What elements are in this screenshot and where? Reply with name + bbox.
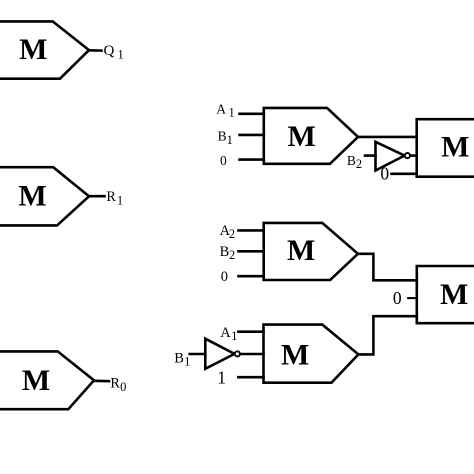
svg-text:A2: A2 <box>220 223 236 241</box>
multiplexer U5, top right block (clipped) <box>417 119 474 177</box>
wire input B2 to U6 <box>239 250 264 253</box>
multiplexer U4 (inputs A1,B1,0), top right <box>264 108 358 164</box>
svg-text:B2: B2 <box>347 153 362 171</box>
multiplexer U2 (output R1), left column middle <box>0 167 89 225</box>
wire input 0 to U5 <box>392 173 417 176</box>
svg-text:1: 1 <box>217 367 226 387</box>
svg-text:A1: A1 <box>220 325 237 343</box>
svg-text:M: M <box>441 131 469 164</box>
wire R0 output <box>94 379 109 382</box>
svg-text:M: M <box>288 120 316 153</box>
wire U4 output to U5 <box>358 136 417 139</box>
inverter G2 bubble <box>235 351 240 356</box>
inverter G2 (input B1), bottom right <box>205 339 234 369</box>
wire input 0 to U8 <box>408 297 417 299</box>
wire input 0 to U6 <box>239 275 264 278</box>
svg-text:A1: A1 <box>216 101 235 119</box>
multiplexer U8, middle right block (clipped) <box>417 266 474 323</box>
svg-text:B1: B1 <box>174 351 190 369</box>
wire G2 output to U7 <box>240 353 263 356</box>
svg-text:R1: R1 <box>106 189 123 207</box>
svg-text:M: M <box>19 33 47 66</box>
wire input B2 to inverter G1 <box>365 154 376 157</box>
wire input A2 to U6 <box>239 229 264 232</box>
wire G1 output to U5 <box>410 154 417 157</box>
svg-text:M: M <box>281 339 309 372</box>
wire U7 output to U8 <box>358 316 416 354</box>
svg-text:R0: R0 <box>110 375 126 394</box>
svg-text:B2: B2 <box>220 244 236 262</box>
svg-text:M: M <box>440 278 468 311</box>
wire input B1 to U4 <box>240 134 264 137</box>
wire input B1 to inverter G2 <box>190 353 206 356</box>
svg-text:Q1: Q1 <box>104 43 124 62</box>
svg-text:B1: B1 <box>218 129 233 147</box>
svg-text:0: 0 <box>220 153 227 168</box>
svg-text:M: M <box>18 179 46 212</box>
wire input A1 to U4 <box>240 113 264 116</box>
svg-text:M: M <box>287 234 315 267</box>
multiplexer U7 (inputs A1,B1n,1), bottom right <box>264 325 359 383</box>
wire input 0 to U4 <box>240 158 264 161</box>
multiplexer U6 (inputs A2,B2,0), middle right <box>264 223 358 280</box>
wire input 1 to U7 <box>238 376 263 379</box>
multiplexer U3 (output R0), left column bottom <box>0 351 94 409</box>
wire R1 output <box>89 195 105 198</box>
wire input A1 to U7 <box>238 330 263 333</box>
inverter G1 bubble <box>405 153 410 158</box>
inverter G1 (input B2), top right <box>376 142 405 171</box>
wire U6 output to U8 <box>358 254 417 280</box>
svg-text:0: 0 <box>380 164 389 184</box>
svg-text:M: M <box>22 364 50 397</box>
multiplexer U1 (output Q1), left column top <box>0 21 89 78</box>
svg-text:0: 0 <box>221 269 228 285</box>
wire Q1 output <box>89 49 102 52</box>
svg-text:0: 0 <box>393 288 402 308</box>
